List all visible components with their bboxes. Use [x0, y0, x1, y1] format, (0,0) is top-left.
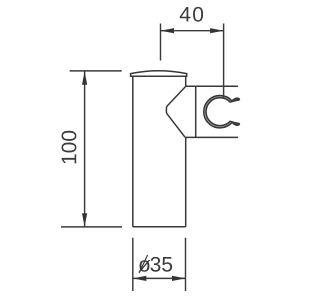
bracket cup left edge — [195, 86, 197, 137]
dim 35 line — [133, 277, 186, 279]
dim 100 line — [84, 71, 86, 227]
clip C outer arc — [204, 95, 232, 127]
tube right edge lower — [185, 137, 187, 226]
dim 40 arrow right — [210, 28, 224, 33]
dim text 40 — [180, 7, 203, 22]
dim 35 extension line left — [132, 238, 134, 291]
tube left edge — [132, 76, 134, 227]
dim 40 line — [161, 30, 224, 32]
dim 100 extension line top — [70, 70, 122, 72]
clip lower lip — [230, 121, 239, 125]
bracket bottom edge — [185, 136, 238, 138]
tube bottom edge — [133, 226, 186, 228]
dim 40 arrow left — [161, 28, 175, 33]
bracket wedge — [166, 86, 185, 137]
dim text 100 (rotated) — [62, 131, 77, 164]
dim 35 arrow left — [133, 276, 147, 281]
dim 100 arrow down — [82, 213, 87, 227]
dim 40 extension line right — [223, 24, 225, 99]
dim 40 extension line left — [160, 24, 162, 61]
dim 35 arrow right — [172, 276, 186, 281]
dim 35 extension line right — [185, 238, 187, 291]
dim 100 extension line bottom — [61, 226, 122, 228]
dim text diameter 35 — [138, 257, 172, 272]
clip C inner arc — [206, 98, 230, 126]
tube right edge upper — [185, 76, 187, 86]
dim 100 arrow up — [82, 71, 87, 85]
clip band mid tone — [205, 97, 231, 127]
bracket top edge — [186, 85, 238, 87]
tube cap — [131, 71, 187, 76]
clip upper lip — [230, 98, 239, 102]
diameter symbol slash extension — [139, 255, 148, 273]
